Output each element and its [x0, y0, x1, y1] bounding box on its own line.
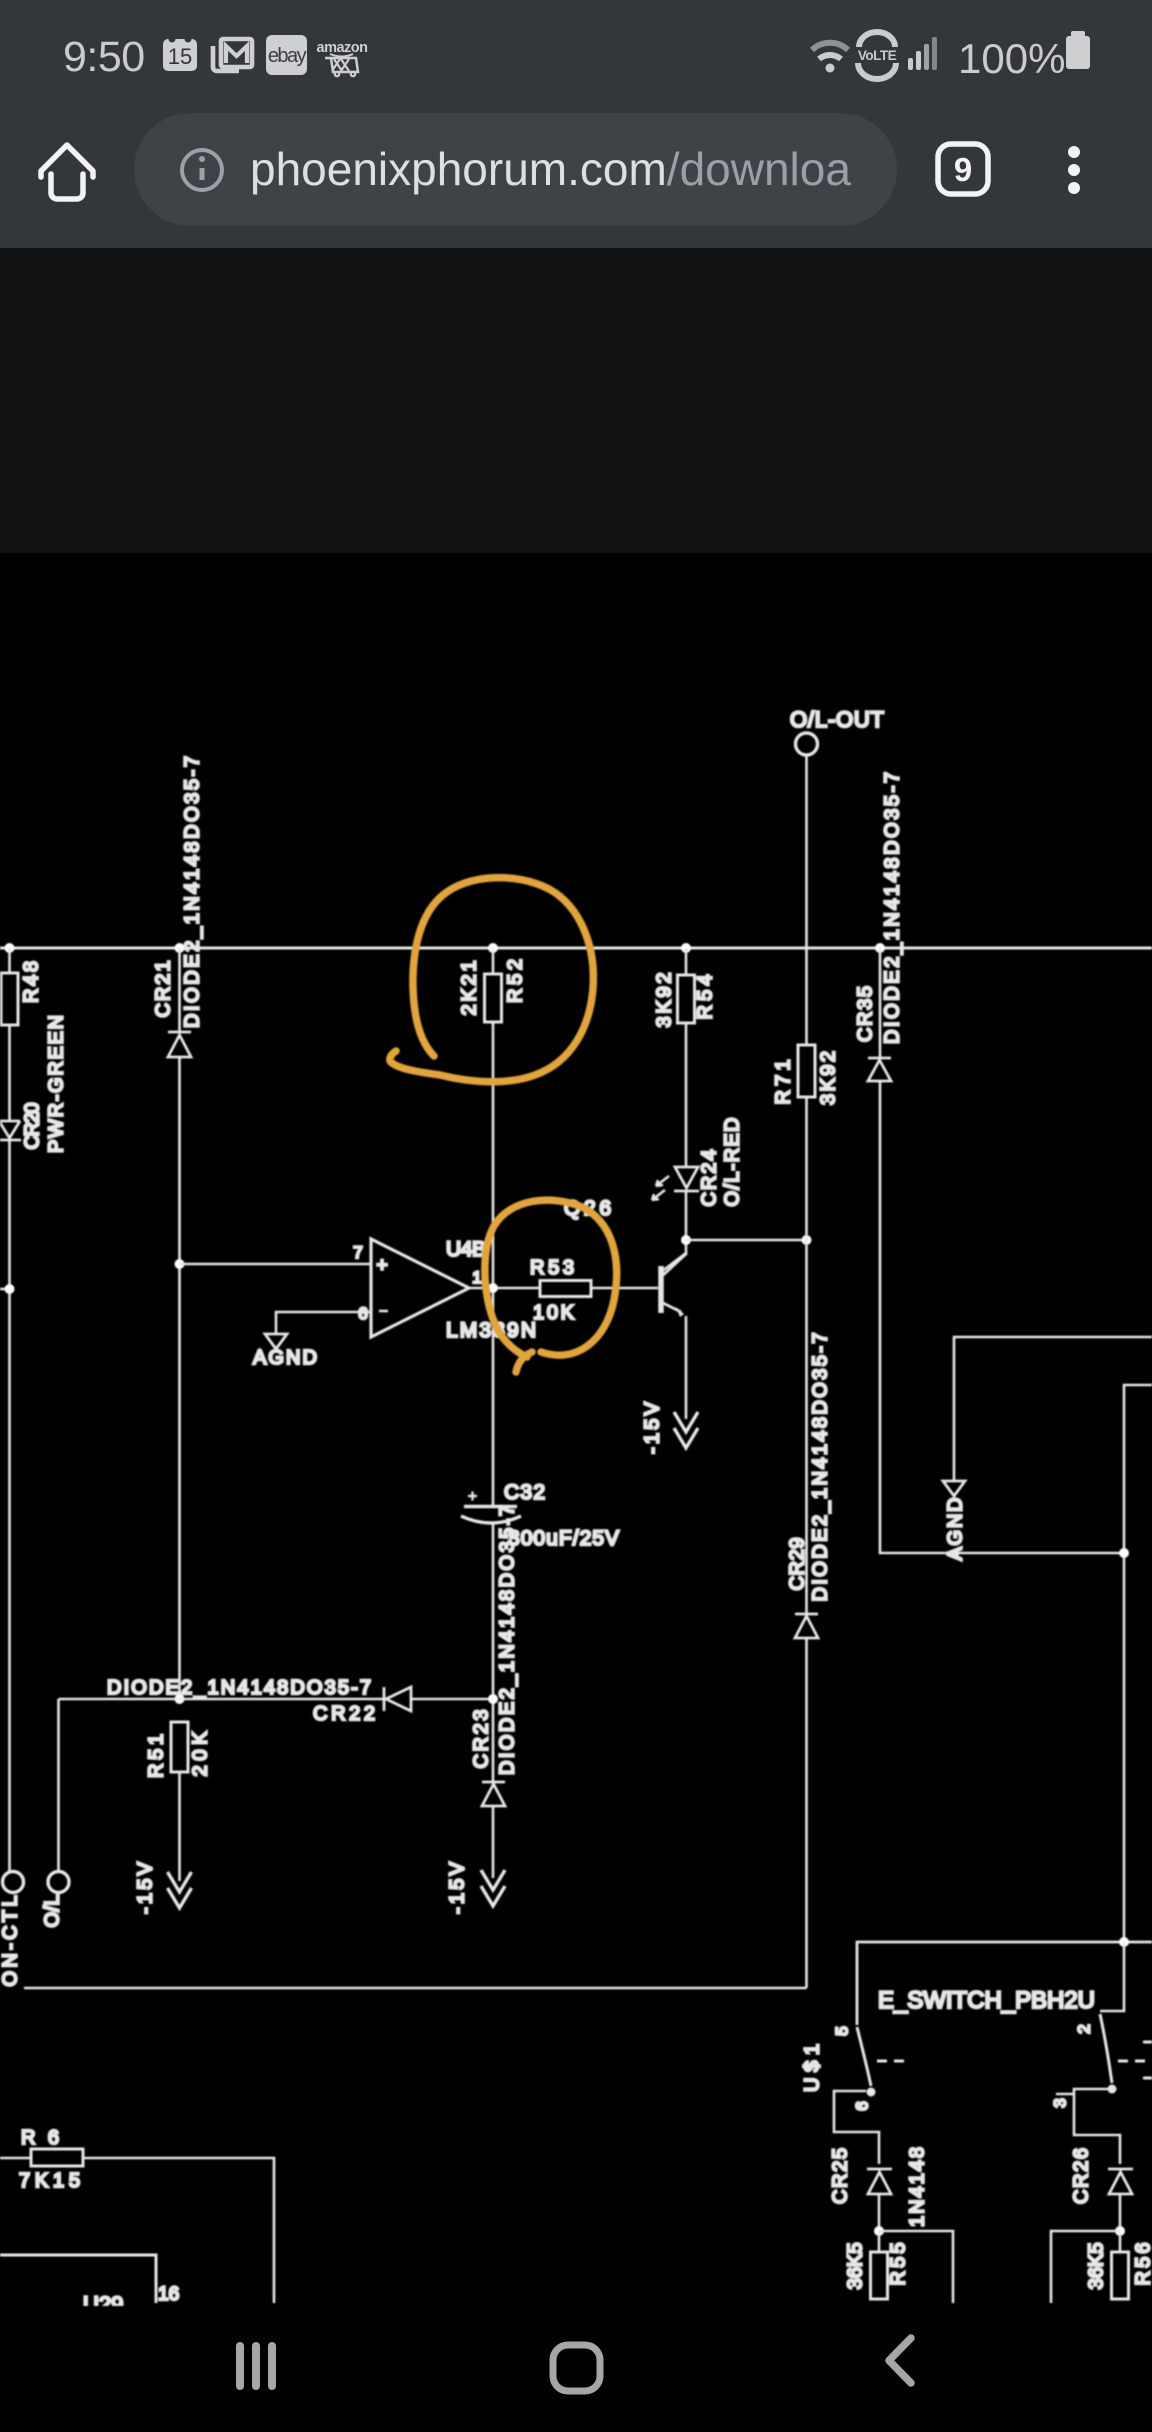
switch pole 2 (pins 2-3) — [1050, 1942, 1152, 2164]
svg-text:1N4148: 1N4148 — [906, 2147, 928, 2227]
wire op-amp output — [469, 1287, 658, 1290]
svg-text:DIODE2_1N4148DO35-7: DIODE2_1N4148DO35-7 — [496, 1505, 518, 1775]
svg-text:3K92: 3K92 — [817, 1051, 839, 1105]
svg-text:CR21: CR21 — [152, 961, 174, 1018]
svg-text:R6: R6 — [21, 2127, 59, 2149]
calendar notification icon — [163, 36, 197, 72]
wire CR26 node to left drop — [1051, 2231, 1120, 2303]
svg-text:U$1: U$1 — [801, 2044, 823, 2092]
svg-text:6: 6 — [358, 1304, 367, 1323]
svg-text:36K5: 36K5 — [844, 2243, 866, 2290]
wire O/L to CR22 to R52 rail — [59, 1698, 494, 1701]
gmail notification icon — [213, 39, 252, 71]
svg-text:20K: 20K — [189, 1731, 211, 1777]
svg-text:-15V: -15V — [641, 1401, 663, 1454]
amazon notification icon — [317, 40, 368, 76]
wifi status icon — [812, 43, 848, 73]
wire right edge to switch rail — [1124, 1385, 1152, 1942]
svg-text:3: 3 — [1050, 2098, 1069, 2107]
VoLTE status icon — [858, 32, 897, 79]
svg-text:7: 7 — [353, 1243, 362, 1262]
svg-text:R54: R54 — [694, 975, 716, 1020]
svg-text:R56: R56 — [1132, 2243, 1152, 2286]
svg-text:C32: C32 — [504, 1481, 545, 1504]
svg-text:3K92: 3K92 — [653, 973, 675, 1028]
node collector junction — [681, 1235, 691, 1245]
wire CR25 node to right drop — [879, 2231, 953, 2303]
svg-text:R48: R48 — [20, 961, 42, 1003]
svg-text:DIODE2_1N4148DO35-7: DIODE2_1N4148DO35-7 — [181, 756, 203, 1028]
svg-text:ON-CTL: ON-CTL — [0, 1896, 21, 1987]
resistor R52 2K21 — [458, 959, 526, 1022]
svg-text:CR22: CR22 — [313, 1703, 375, 1725]
resistor R48 — [1, 961, 42, 1025]
node CR21/op-amp input junction — [175, 1259, 185, 1269]
resistor R54 3K92 — [653, 973, 716, 1028]
svg-text:R55: R55 — [887, 2243, 909, 2286]
wire CR35 rail x=880 — [880, 948, 1123, 1553]
wire to op-amp noninverting input — [180, 1263, 372, 1266]
svg-text:R53: R53 — [530, 1257, 574, 1279]
node switch rail/box junction — [1119, 1937, 1129, 1947]
svg-text:CR26: CR26 — [1070, 2148, 1092, 2204]
transistor Q26 — [564, 1197, 687, 1317]
svg-text:16: 16 — [158, 2284, 179, 2305]
svg-text:5: 5 — [832, 2026, 851, 2035]
diode CR29 — [786, 1333, 831, 1639]
info icon in url bar — [182, 150, 222, 190]
switch pole 1 (pins 5-6) — [832, 2026, 904, 2164]
terminal O/L — [41, 1699, 69, 1928]
node bus/CR21 junction — [175, 943, 185, 953]
wire main horizontal bus — [0, 947, 1152, 950]
svg-text:1: 1 — [472, 1268, 481, 1287]
diode CR20 PWR-GREEN — [0, 1015, 67, 1153]
wire R52 rail x=493 — [492, 948, 495, 1878]
svg-text:+: + — [376, 1255, 387, 1276]
svg-text:ebay: ebay — [268, 45, 307, 67]
svg-text:U4B: U4B — [446, 1238, 486, 1261]
wire CR21 rail x=179.5 — [178, 948, 181, 1699]
svg-text:CR29: CR29 — [786, 1538, 808, 1591]
svg-text:CR25: CR25 — [829, 2148, 851, 2204]
battery icon — [1066, 31, 1090, 69]
svg-text:O/L: O/L — [41, 1895, 63, 1928]
node stub left edge y=1289 — [0, 1284, 15, 1294]
svg-text:O/L-RED: O/L-RED — [721, 1118, 743, 1207]
svg-text:2K21: 2K21 — [458, 961, 480, 1016]
switch E_SWITCH_PBH2U U$1 — [801, 1942, 1152, 2092]
svg-text:10K: 10K — [533, 1302, 575, 1324]
wire R54 rail x=686 — [661, 948, 686, 1272]
resistor R53 10K — [530, 1257, 591, 1324]
diode CR35 — [854, 772, 903, 1081]
overflow menu dots — [1068, 146, 1080, 194]
wire R51 to -15V — [178, 1772, 181, 1881]
ebay notification icon — [266, 35, 307, 75]
node bus/R48 junction — [5, 943, 15, 953]
node bus/R54 junction — [681, 943, 691, 953]
wire left rail segments x=9.5 — [8, 948, 11, 1871]
svg-text:-15V: -15V — [134, 1861, 156, 1914]
svg-text:VoLTE: VoLTE — [858, 48, 897, 63]
resistor R51 20K — [145, 1722, 211, 1778]
home button — [41, 145, 93, 199]
signal strength bars — [908, 37, 937, 70]
capacitor C32 300uF/25V — [461, 1481, 619, 1550]
op-amp U4B LM339N — [353, 1238, 536, 1342]
terminal ON-CTL — [0, 1872, 24, 1987]
svg-text:amazon: amazon — [317, 40, 368, 56]
svg-text:PWR-GREEN: PWR-GREEN — [45, 1015, 67, 1153]
svg-text:300uF/25V: 300uF/25V — [508, 1527, 619, 1550]
svg-text:CR20: CR20 — [21, 1103, 43, 1150]
svg-text:DIODE2_1N4148DO35-7: DIODE2_1N4148DO35-7 — [881, 772, 903, 1044]
ground AGND (right) — [943, 1337, 1152, 1561]
node R71 rail junction — [802, 1235, 812, 1245]
diode CR22 — [107, 1677, 411, 1725]
node switch rail/AGND wire junction — [1119, 1548, 1129, 1558]
ground AGND (op-amp) — [253, 1334, 317, 1369]
wire collector to R71 rail — [686, 1239, 807, 1242]
IC box corner with pin 16 — [0, 2255, 179, 2317]
wire O/L-OUT rail x=806.5 — [805, 755, 808, 1988]
tab counter button — [938, 144, 988, 194]
svg-text:DIODE2_1N4148DO35-7: DIODE2_1N4148DO35-7 — [809, 1333, 831, 1602]
resistor R71 3K92 — [772, 1045, 839, 1105]
resistor R56 36K5 — [1085, 2231, 1152, 2299]
svg-text:R51: R51 — [145, 1734, 167, 1778]
wire op-amp inverting input — [276, 1312, 371, 1333]
annotation circle 2 (around R53) — [485, 1200, 617, 1372]
svg-text:CR23: CR23 — [470, 1710, 492, 1769]
node bus/R52 junction — [488, 943, 498, 953]
node CR21/CR22 junction — [175, 1694, 185, 1704]
resistor R6 7K15 — [0, 2127, 274, 2303]
resistor R55 36K5 — [844, 2231, 909, 2299]
svg-text:6: 6 — [852, 2101, 871, 2110]
svg-text:2: 2 — [1074, 2024, 1093, 2033]
svg-text:U29: U29 — [83, 2292, 123, 2306]
diode CR25 1N4148 — [829, 2147, 928, 2231]
svg-text:7K15: 7K15 — [19, 2170, 80, 2192]
LED CR24 O/L-RED — [652, 1118, 743, 1207]
power -15V arrow (CR23) — [446, 1861, 505, 1914]
svg-text:DIODE2_1N4148DO35-7: DIODE2_1N4148DO35-7 — [107, 1677, 371, 1699]
nav recents button — [236, 2342, 276, 2390]
diode CR21 — [152, 756, 203, 1057]
svg-text:9: 9 — [954, 151, 972, 188]
svg-text:CR24: CR24 — [698, 1150, 720, 1207]
svg-text:R52: R52 — [504, 959, 526, 1003]
svg-text:-15V: -15V — [446, 1861, 468, 1914]
svg-text:36K5: 36K5 — [1085, 2243, 1107, 2290]
node CR25/R55 junction — [874, 2226, 884, 2236]
svg-text:CR35: CR35 — [854, 986, 876, 1042]
diode CR26 — [1070, 2148, 1133, 2231]
node output/R52 rail junction — [488, 1283, 498, 1293]
diode CR23 — [470, 1505, 518, 1806]
node R52 rail/CR22 junction — [488, 1694, 498, 1704]
wire Q26 emitter to -15V — [685, 1316, 688, 1419]
annotation circle 1 (around R52) — [390, 878, 593, 1082]
svg-text:E_SWITCH_PBH2U: E_SWITCH_PBH2U — [878, 1987, 1095, 2014]
svg-text:AGND: AGND — [253, 1347, 317, 1369]
wire bottom horizontal — [24, 1987, 807, 1990]
nav home button — [553, 2345, 600, 2391]
node bus/CR35 junction — [875, 943, 885, 953]
svg-text:R71: R71 — [772, 1060, 794, 1105]
power -15V arrow (Q26) — [641, 1401, 698, 1454]
terminal O/L-OUT — [790, 707, 884, 755]
node CR26/R56 junction — [1115, 2226, 1125, 2236]
svg-text:AGND: AGND — [944, 1498, 966, 1561]
svg-text:O/L-OUT: O/L-OUT — [790, 707, 884, 732]
svg-text:15: 15 — [168, 44, 192, 69]
power -15V arrow (R51) — [134, 1861, 191, 1914]
nav back button — [889, 2338, 911, 2383]
